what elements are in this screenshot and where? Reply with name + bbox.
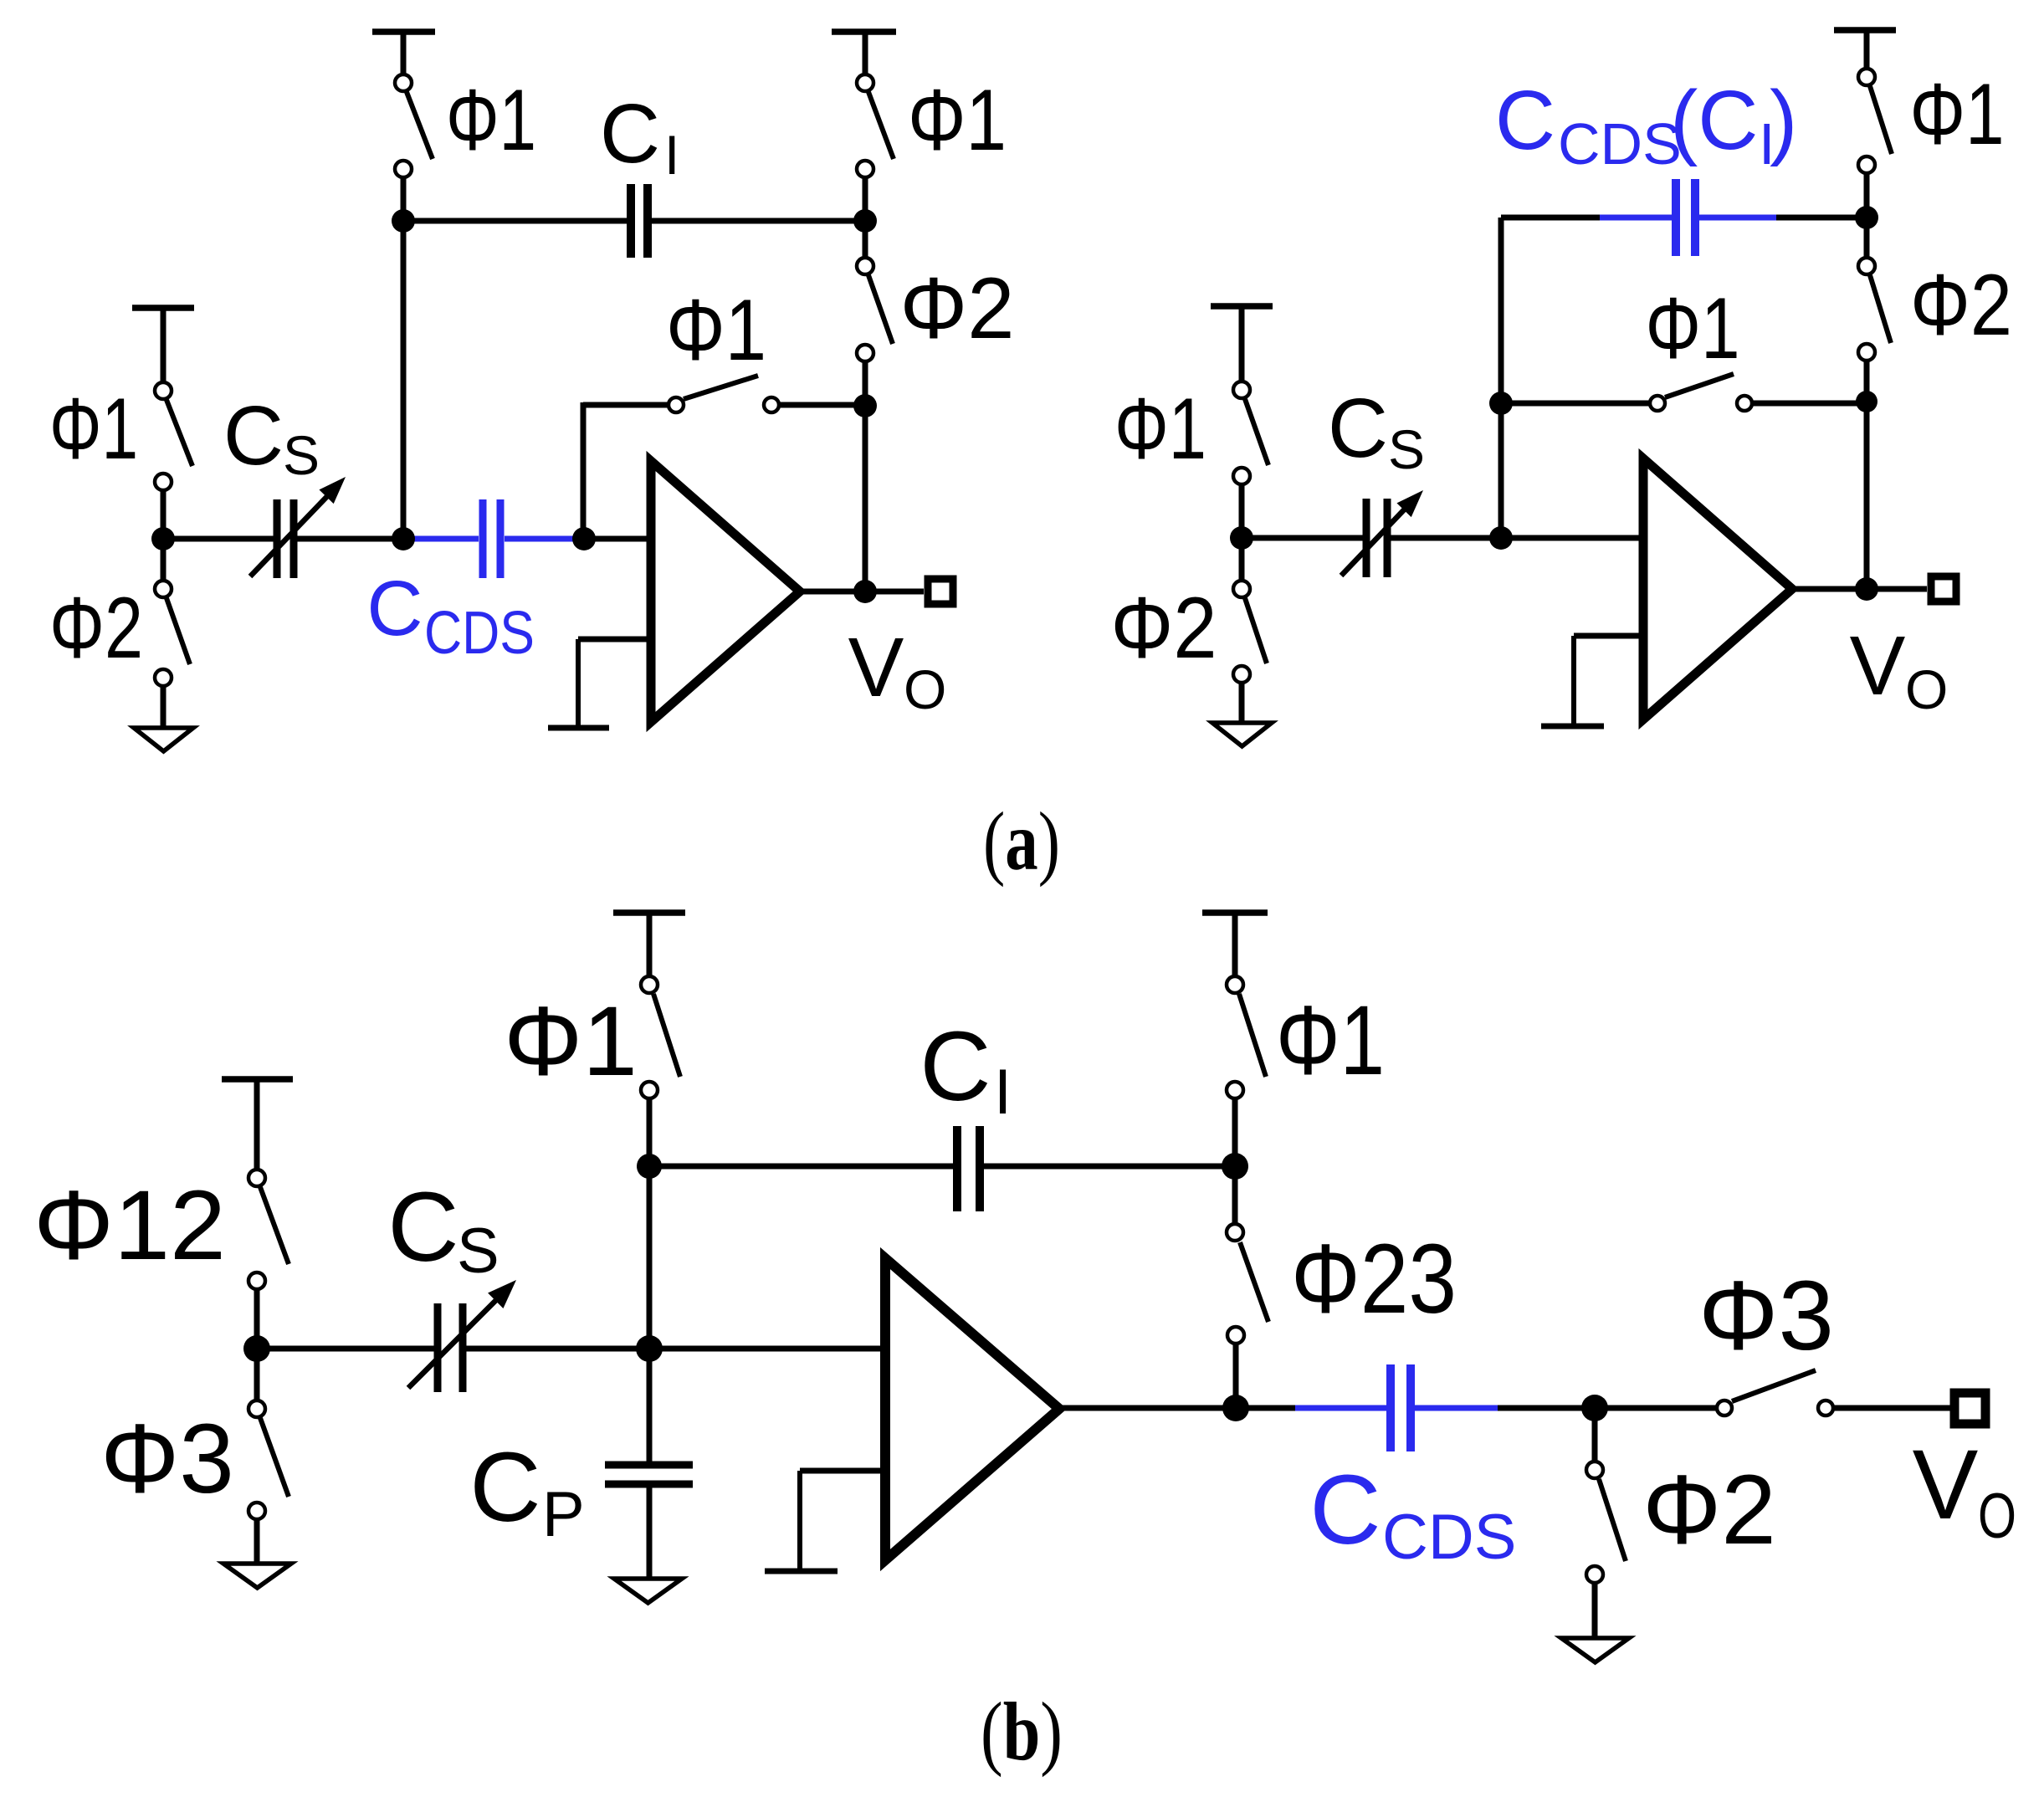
- node E (inverting input node): [572, 527, 596, 550]
- wire input rail left: [163, 536, 277, 542]
- node K (output node right): [1855, 577, 1878, 601]
- switch S11 phi1 reset right: [1650, 374, 1867, 411]
- ground G1 input: [134, 728, 193, 751]
- node M (central summing node b): [636, 1335, 663, 1362]
- svg-text:S: S: [457, 1216, 499, 1287]
- node Q (CDS output node): [1581, 1395, 1608, 1421]
- clock bar T3 input (phi1 source): [132, 308, 194, 381]
- wire to op-amp inverting input: [584, 536, 651, 542]
- svg-text:I: I: [664, 124, 679, 186]
- node C (reset line meets output line): [853, 394, 877, 417]
- label CI b: [920, 1011, 1012, 1128]
- switch S1 phi1 top-left: [395, 74, 433, 219]
- node L (input node b): [243, 1335, 270, 1362]
- svg-text:C: C: [1495, 74, 1555, 167]
- wire op-amp noninverting input: [578, 639, 651, 726]
- node H (summing node right): [1489, 526, 1513, 550]
- switch S4 phi1 reset: [669, 376, 865, 412]
- label CP: [469, 1432, 584, 1550]
- wire CI rail right: [984, 1164, 1235, 1170]
- label CCDS (blue): [366, 565, 535, 667]
- clock bar T1 top-left (phi1 source): [372, 32, 435, 74]
- clock bar T4 input right circuit: [1211, 306, 1273, 381]
- wire op-amp U3 noninverting input: [800, 1471, 885, 1569]
- svg-text:C: C: [1328, 381, 1388, 475]
- svg-text:Φ1: Φ1: [1114, 381, 1206, 478]
- label VO right: [1850, 619, 1949, 720]
- node F (output node): [853, 580, 877, 603]
- wire reset corner: [583, 402, 668, 539]
- signal ground bar U2: [1541, 724, 1604, 730]
- svg-text:Φ12: Φ12: [33, 1170, 226, 1281]
- svg-text:Φ2: Φ2: [1642, 1455, 1776, 1565]
- svg-text:O: O: [904, 658, 946, 720]
- svg-text:S: S: [1388, 418, 1425, 480]
- svg-text:P: P: [542, 1479, 585, 1550]
- switch S2 phi1 top-right: [857, 74, 894, 219]
- svg-text:O: O: [1978, 1481, 2016, 1552]
- svg-text:Φ1: Φ1: [49, 381, 138, 478]
- wire CI rail left: [649, 1164, 953, 1170]
- capacitor CS variable right: [1341, 484, 1431, 577]
- svg-text:(b): (b): [981, 1685, 1063, 1778]
- svg-text:V: V: [1913, 1430, 1979, 1540]
- wire corner to CCDS(CI): [1501, 215, 1604, 221]
- svg-text:C: C: [387, 1172, 458, 1282]
- clock bar T7 phi1 b left: [613, 913, 685, 975]
- svg-text:Φ1: Φ1: [504, 986, 638, 1097]
- label CCDS(CI) (blue): [1495, 74, 1797, 177]
- node H2 (reset tap on vertical): [1489, 392, 1513, 415]
- svg-text:C: C: [600, 87, 660, 181]
- wire output: [800, 589, 924, 595]
- node B (right plate of CI): [853, 209, 877, 233]
- svg-text:V: V: [1850, 619, 1906, 713]
- ground G3 input b: [223, 1564, 291, 1588]
- wire op-amp U2 noninverting input: [1574, 636, 1643, 724]
- terminal VO square b: [1954, 1393, 1985, 1424]
- node I (right plate node): [1855, 206, 1878, 229]
- ground G2 input right: [1212, 723, 1272, 746]
- svg-text:Φ1: Φ1: [666, 282, 766, 379]
- node A (left plate of CI): [392, 209, 415, 233]
- wire output right: [1792, 586, 1927, 592]
- capacitor CI b: [957, 1126, 980, 1211]
- node O (CI rail right node): [1222, 1153, 1248, 1180]
- label CS b: [387, 1172, 499, 1287]
- svg-text:CDS: CDS: [1558, 111, 1682, 177]
- op-amp U1: [651, 461, 800, 722]
- ground G5 phi2 b: [1561, 1638, 1629, 1662]
- signal ground bar U3: [765, 1569, 838, 1574]
- svg-text:CDS: CDS: [424, 600, 535, 667]
- wire output b: [1059, 1405, 1299, 1411]
- node E0 (CS meets CCDS): [392, 527, 415, 550]
- svg-text:(C: (C: [1670, 74, 1759, 167]
- svg-text:Φ2: Φ2: [1111, 580, 1217, 677]
- switch S3 phi2 right: [857, 221, 893, 406]
- capacitor CI: [631, 184, 648, 258]
- label CI: [600, 87, 679, 186]
- node N (CI rail left node): [637, 1154, 662, 1179]
- switch S6 phi2 input: [155, 539, 190, 728]
- switch S17 phi2 b: [1586, 1408, 1626, 1638]
- svg-text:I: I: [994, 1057, 1012, 1128]
- switch S10 phi2 right: [1858, 218, 1891, 402]
- svg-text:C: C: [366, 565, 423, 652]
- clock bar T8 phi1 b right: [1202, 913, 1268, 975]
- capacitor CP: [605, 1349, 693, 1579]
- clock bar T2 top-right (phi1 source): [832, 32, 896, 74]
- node J (reset meets output line right): [1856, 391, 1878, 412]
- svg-text:Φ2: Φ2: [1910, 257, 2012, 354]
- switch S9 phi1 top right: [1858, 69, 1892, 218]
- svg-text:Φ2: Φ2: [900, 260, 1015, 357]
- capacitor CS variable: [250, 470, 353, 578]
- op-amp U2: [1643, 458, 1792, 719]
- label VO: [848, 621, 947, 720]
- svg-text:S: S: [283, 424, 320, 486]
- node P (op-amp output node b): [1222, 1395, 1249, 1421]
- capacitor CI wire left: [403, 218, 627, 224]
- wire summing node up: [1498, 218, 1504, 538]
- node G (input node right): [1230, 526, 1253, 550]
- capacitor CCDS (blue): [410, 499, 577, 578]
- node D (input node): [151, 527, 175, 550]
- svg-text:): ): [1770, 74, 1797, 167]
- switch S15 phi1 b right: [1227, 976, 1266, 1166]
- svg-text:Φ3: Φ3: [100, 1404, 234, 1514]
- svg-text:O: O: [1905, 658, 1948, 720]
- switch S13 phi3: [248, 1349, 289, 1564]
- wire input rail b: [257, 1346, 438, 1352]
- capacitor CCDS b (blue): [1295, 1364, 1502, 1451]
- label CCDS b (blue): [1309, 1455, 1516, 1573]
- capacitor CS variable b: [408, 1272, 524, 1392]
- capacitor CI wire right: [652, 218, 865, 224]
- svg-text:Φ1: Φ1: [1646, 280, 1740, 377]
- svg-text:V: V: [848, 621, 904, 714]
- switch S16 phi23: [1227, 1166, 1268, 1408]
- svg-text:Φ1: Φ1: [1276, 986, 1385, 1096]
- switch S5 phi1 input: [155, 382, 192, 539]
- svg-text:Φ1: Φ1: [1910, 66, 2005, 163]
- clock bar T5 top right: [1834, 30, 1896, 68]
- switch S18 phi3 output: [1595, 1370, 1950, 1416]
- svg-text:C: C: [920, 1011, 991, 1122]
- clock bar T6 phi12 input: [222, 1079, 293, 1169]
- svg-text:C: C: [1309, 1455, 1381, 1565]
- wire feedback vertical: [863, 406, 868, 591]
- wire reset line right: [1501, 401, 1649, 407]
- switch S14 phi1 b left: [641, 976, 680, 1166]
- capacitor CCDS(CI) (blue): [1600, 179, 1780, 256]
- label CS right: [1328, 381, 1425, 480]
- terminal VO square: [928, 579, 953, 604]
- switch S12 phi12: [248, 1170, 289, 1349]
- svg-text:Φ2: Φ2: [49, 580, 143, 677]
- svg-text:Φ1: Φ1: [446, 72, 536, 169]
- ground G4 CP: [614, 1579, 682, 1603]
- terminal VO square right: [1931, 576, 1956, 602]
- svg-text:(a): (a): [983, 795, 1060, 888]
- label VO b: [1913, 1430, 2016, 1552]
- label CS: [223, 389, 320, 486]
- wire central node up to CI rail: [647, 1166, 653, 1349]
- svg-text:CDS: CDS: [1382, 1502, 1516, 1573]
- wire blue cap to node I: [1776, 215, 1867, 221]
- wire rail to summing node: [1387, 535, 1643, 541]
- switch S8 phi2 input: [1233, 538, 1267, 723]
- wire feedback vertical right: [1864, 402, 1870, 589]
- switch S7 phi1 input: [1233, 381, 1268, 538]
- svg-text:C: C: [469, 1432, 540, 1543]
- op-amp U3: [885, 1258, 1059, 1560]
- wire input rail: [1242, 535, 1366, 541]
- wire blue cap to node Q: [1498, 1405, 1595, 1411]
- svg-text:Φ3: Φ3: [1698, 1261, 1834, 1371]
- wire rail to central node: [463, 1346, 885, 1352]
- wire input rail right: [294, 536, 415, 542]
- svg-text:Φ23: Φ23: [1291, 1224, 1457, 1334]
- signal ground bar U1: [548, 725, 609, 731]
- svg-text:C: C: [223, 389, 284, 483]
- wire node A down to summing node: [401, 221, 407, 539]
- svg-text:Φ1: Φ1: [908, 72, 1007, 169]
